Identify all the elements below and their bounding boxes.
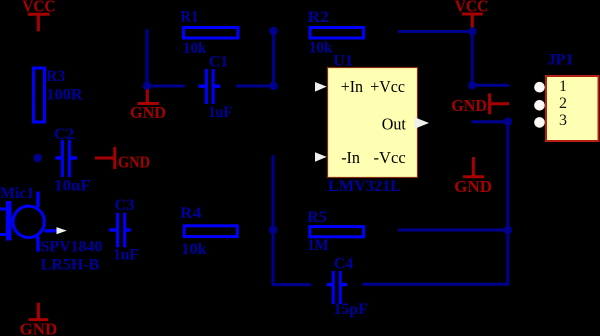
svg-text:R5: R5 (307, 209, 327, 226)
node at (147,86) (143, 82, 151, 90)
svg-text:100R: 100R (46, 87, 83, 104)
svg-text:R2: R2 (308, 9, 329, 26)
svg-text:C3: C3 (115, 197, 135, 214)
resistor R4 (180, 205, 237, 258)
svg-text:Out: Out (382, 114, 406, 133)
node at VCC rail (468, 27, 476, 35)
wire: riser up (272, 31, 275, 86)
svg-text:C2: C2 (54, 126, 74, 143)
svg-text:LR5H-B: LR5H-B (41, 257, 100, 274)
svg-text:1: 1 (559, 78, 567, 95)
ground (below C1 junction) (130, 90, 166, 123)
svg-text:GND: GND (454, 177, 492, 196)
op-amp U1 (315, 53, 429, 195)
power VCC (right) (455, 0, 489, 28)
svg-text:1uF: 1uF (208, 104, 232, 121)
node at riser bottom (269, 82, 277, 90)
svg-text:GND: GND (130, 103, 166, 122)
svg-text:10uF: 10uF (54, 178, 91, 195)
svg-text:C1: C1 (209, 54, 228, 71)
power VCC (left) (22, 0, 55, 31)
node junction at C2 left (34, 154, 42, 162)
resistor R1 (181, 9, 239, 57)
svg-text:GND: GND (118, 153, 150, 172)
svg-text:SPV1840: SPV1840 (41, 239, 103, 256)
svg-text:10k: 10k (309, 40, 333, 57)
node at output (504, 118, 512, 126)
svg-text:1M: 1M (307, 237, 329, 254)
wire: junction to C1 left (147, 85, 184, 88)
node (468, 81, 476, 89)
svg-text:GND: GND (451, 96, 487, 115)
svg-text:-In: -In (341, 148, 360, 167)
svg-text:C4: C4 (334, 256, 353, 273)
wire: feedback to R5 (399, 229, 507, 232)
ground (below op-amp) (454, 157, 492, 196)
svg-text:R4: R4 (180, 205, 201, 222)
node at riser top (269, 27, 277, 35)
svg-text:2: 2 (559, 95, 567, 112)
wire: C1 right to riser (237, 85, 273, 88)
wire: bottom feedback (364, 283, 508, 286)
svg-text:R1: R1 (181, 9, 199, 26)
svg-text:LMV321L: LMV321L (328, 178, 401, 195)
wire: output (473, 120, 508, 123)
wire: to C4 left (273, 283, 310, 286)
wire: output down (506, 122, 509, 285)
capacitor C4 (327, 256, 368, 318)
ground (right of C2) (95, 147, 150, 172)
svg-text:GND: GND (20, 319, 58, 336)
resistor R2 (308, 9, 364, 57)
svg-text:10k: 10k (183, 40, 206, 57)
svg-text:15pF: 15pF (334, 301, 369, 318)
wire: vertical into C1 net (146, 31, 149, 87)
svg-text:R3: R3 (46, 68, 65, 85)
svg-text:-Vcc: -Vcc (374, 148, 407, 167)
svg-text:1uF: 1uF (113, 246, 139, 263)
capacitor C2 (54, 126, 91, 195)
svg-text:3: 3 (559, 112, 567, 129)
wire: inverting riser (272, 156, 275, 284)
svg-text:JP1: JP1 (548, 51, 574, 68)
svg-text:Mic1: Mic1 (0, 185, 34, 202)
resistor R5 (307, 209, 363, 254)
connector JP1 (534, 51, 598, 141)
node at feedback (504, 226, 512, 234)
ground (bottom left) (20, 303, 58, 336)
wire: VCC rail to op-amp (399, 30, 472, 33)
node on riser (269, 226, 277, 234)
ground (mid right, pointing right) (451, 93, 509, 115)
wire: down from VCC node (471, 32, 474, 86)
svg-text:10k: 10k (181, 241, 206, 258)
microphone Mic1 (0, 185, 102, 274)
capacitor C3 (109, 197, 139, 263)
svg-text:+Vcc: +Vcc (370, 77, 405, 96)
wire: to JP1 pin1 (472, 84, 508, 87)
resistor R3 (34, 68, 84, 122)
capacitor C1 (199, 54, 233, 121)
svg-text:+In: +In (341, 77, 364, 96)
